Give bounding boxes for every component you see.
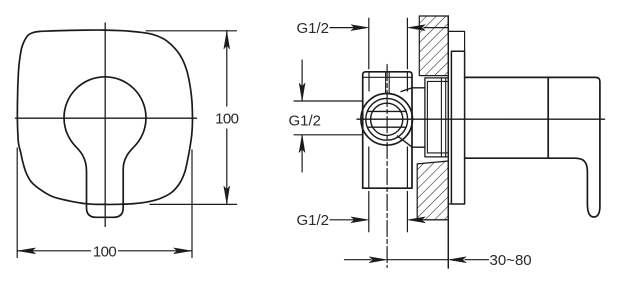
30~80 wall extension line — [447, 222, 449, 268]
horizontal centerline (side view) — [357, 118, 605, 120]
G1/2 top arrow left (from wall) — [408, 25, 425, 31]
valve body with top port (side view) — [363, 72, 412, 188]
vertical centerline (side view / valve axis) — [386, 65, 388, 268]
handle lever (side view) — [548, 77, 600, 217]
handle keyhole (front view lever) — [64, 77, 146, 217]
centerline horizontal (front view) — [16, 117, 197, 119]
svg-text:G1/2: G1/2 — [289, 112, 322, 129]
sleeve inner bottom line — [427, 152, 448, 154]
bottom extension line 1 — [368, 192, 370, 232]
30~80 dim line right tail — [465, 259, 489, 261]
arrowhead right (width 100) — [174, 248, 191, 254]
wall hatched section bottom — [417, 161, 448, 220]
top extension line 2 — [406, 18, 408, 68]
G1/2 bottom arrow right — [351, 217, 368, 223]
plate bottom edge to wall — [448, 203, 451, 205]
svg-text:100: 100 — [93, 243, 116, 260]
sleeve ring vertical 2 — [445, 78, 447, 157]
extension line right (width 100 dim) — [191, 150, 193, 258]
G1/2 middle dim line upper — [301, 60, 303, 100]
dimension line height 100 — [226, 31, 228, 106]
svg-text:G1/2: G1/2 — [297, 20, 330, 37]
sleeve ring vertical 1 — [440, 78, 442, 157]
boss chamfer bottom-right (circle to body corner) — [397, 136, 412, 147]
top port thread line right — [406, 72, 408, 91]
extension line top (height 100 dim) — [146, 30, 237, 32]
G1/2 top leader line — [330, 27, 354, 29]
G1/2 bottom leader line — [330, 219, 354, 221]
port slot lower line — [368, 126, 407, 128]
boss chamfer top-right (circle to body corner) — [401, 88, 412, 92]
sleeve inner top line — [427, 80, 448, 82]
escutcheon plate outline (front view) — [17, 30, 192, 204]
extension line bottom (height 100 dim) — [150, 203, 237, 205]
G1/2 top arrow right — [351, 25, 368, 31]
bottom port thread line right — [406, 147, 408, 188]
handle hub top edge — [465, 76, 549, 78]
svg-text:100: 100 — [215, 110, 238, 127]
mounting sleeve outer — [425, 78, 448, 157]
wall surface hook line — [448, 28, 464, 52]
30~80 arrow right — [369, 257, 386, 263]
body top flange line — [363, 76, 412, 78]
middle extension line lower — [294, 134, 363, 136]
valve stem seam lines — [385, 72, 387, 94]
neck top edge (body to wall) — [412, 87, 425, 89]
arrowhead down (height 100) — [224, 186, 230, 203]
G1/2 bottom arrow left (from wall) — [408, 217, 425, 223]
sleeve inner vertical — [426, 81, 428, 152]
extension line left (width 100 dim) — [16, 148, 18, 258]
arrowhead up (height 100) — [224, 32, 230, 49]
arrowhead left (width 100) — [18, 248, 35, 254]
svg-text:30~80: 30~80 — [490, 252, 532, 269]
30~80 arrow left — [449, 257, 466, 263]
G1/2 middle arrow up — [299, 135, 305, 152]
top extension line 1 — [368, 18, 370, 68]
handle hub bottom edge — [465, 157, 549, 159]
G1/2 middle arrow down — [299, 83, 305, 100]
30~80 dim line middle — [387, 259, 448, 261]
neck bottom edge — [412, 146, 425, 148]
middle extension line upper — [294, 100, 363, 102]
escutcheon plate (side view) — [451, 51, 464, 204]
bottom port thread line left — [368, 147, 370, 188]
dimension line width 100 — [17, 250, 90, 252]
port slot upper line — [368, 110, 407, 112]
bottom extension line 2 — [406, 192, 408, 232]
G1/2 middle dim line lower — [301, 135, 303, 172]
centerline vertical (front view) — [104, 23, 106, 227]
30~80 dim line left tail — [345, 259, 372, 261]
wall hatched section top — [419, 16, 448, 76]
svg-text:G1/2: G1/2 — [297, 212, 330, 229]
side inlet port outer circle — [361, 94, 413, 146]
side inlet port middle circle — [366, 98, 408, 140]
side inlet port inner circle — [371, 103, 403, 135]
wall right face line — [447, 16, 449, 268]
top port thread line left — [368, 72, 370, 91]
handle hub right edge — [547, 77, 549, 158]
